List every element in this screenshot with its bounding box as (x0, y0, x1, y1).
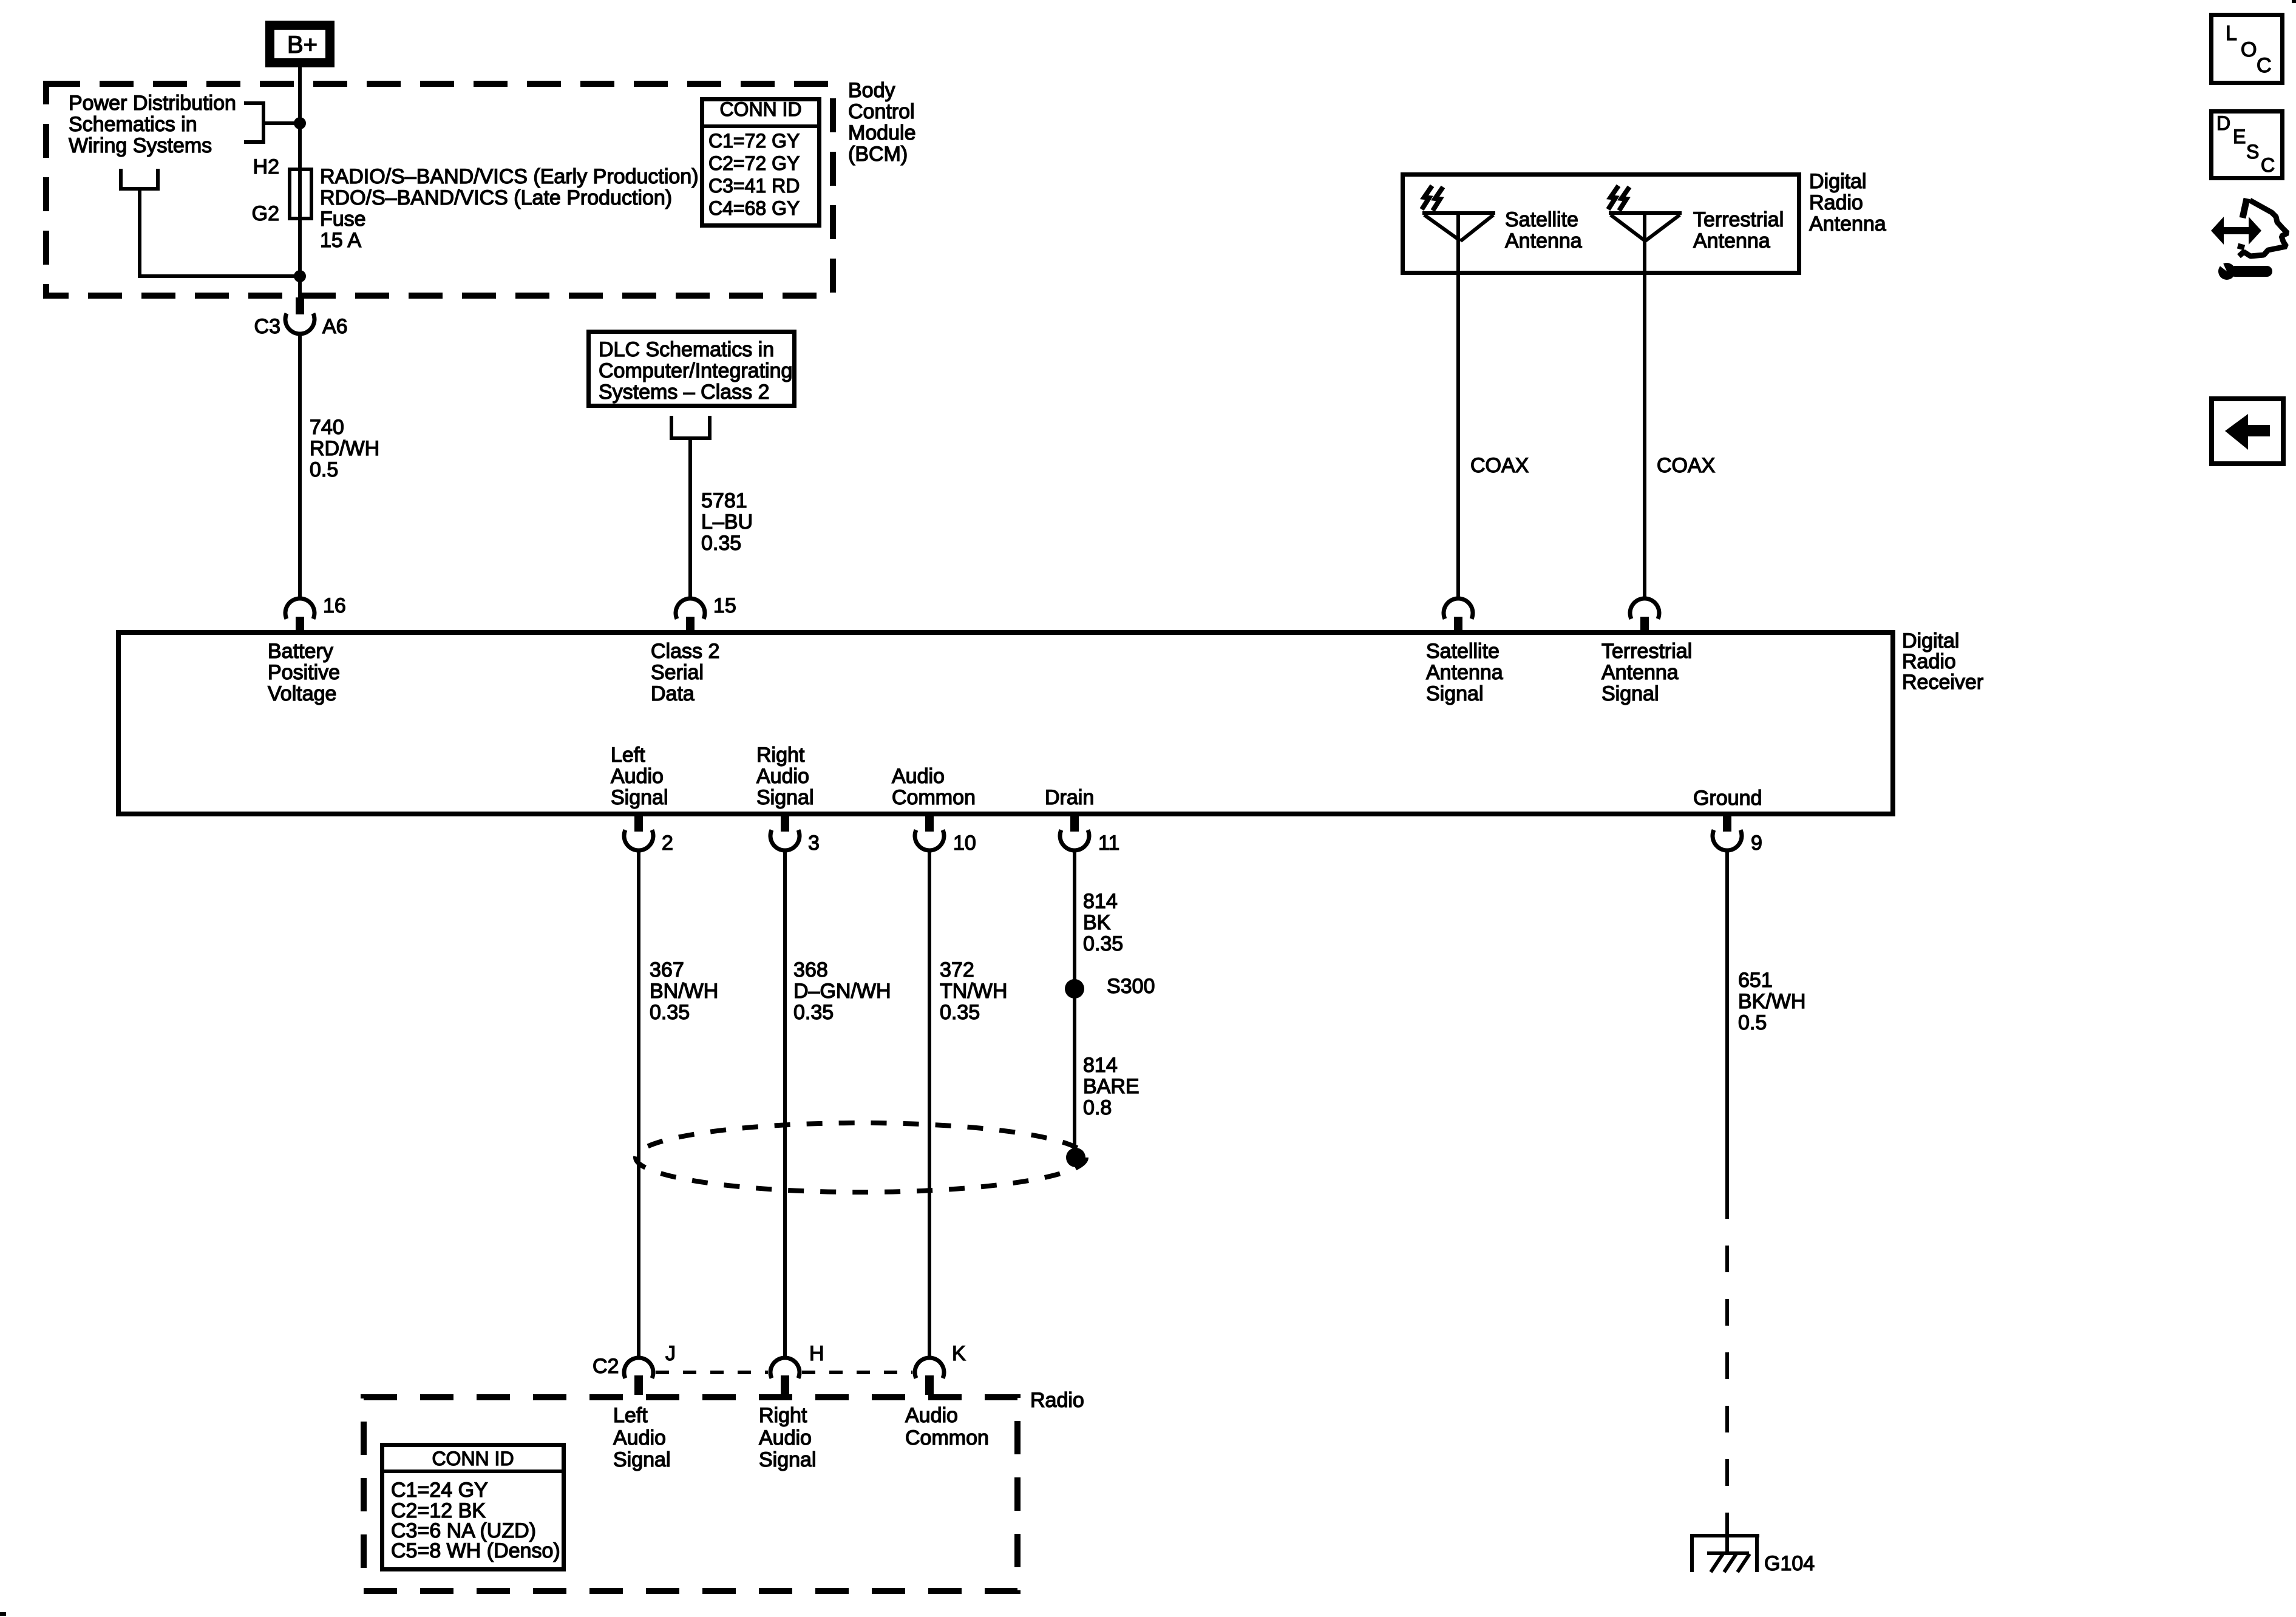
svg-text:COAX: COAX (1470, 454, 1529, 477)
svg-text:Body: Body (848, 79, 895, 102)
svg-text:CONN ID: CONN ID (432, 1448, 514, 1470)
satellite antenna symbol (1422, 186, 1495, 241)
LOC icon box (2212, 15, 2283, 83)
page corner mark top-right (2292, 0, 2296, 3)
svg-text:S: S (2246, 141, 2259, 163)
back arrow icon box (2212, 399, 2283, 464)
svg-text:Antenna: Antenna (1426, 661, 1503, 684)
label wire 367 BN/WH 0.35 (650, 958, 718, 1024)
svg-text:Terrestrial: Terrestrial (1693, 208, 1784, 231)
DLC Schematics note box (589, 332, 795, 406)
svg-text:0.5: 0.5 (310, 458, 338, 481)
wire 814 BK 0.35 drain (1073, 850, 1076, 1158)
svg-text:D–GN/WH: D–GN/WH (793, 980, 891, 1003)
svg-text:BARE: BARE (1083, 1075, 1140, 1098)
svg-text:Data: Data (651, 682, 695, 705)
svg-text:C2: C2 (593, 1355, 619, 1378)
Radio dashed box (364, 1397, 1017, 1591)
svg-text:Radio: Radio (1030, 1389, 1084, 1412)
svg-text:Schematics in: Schematics in (69, 113, 197, 136)
fuse RADIO/S-BAND/VICS 15A (252, 155, 699, 252)
ground G104 (1690, 1530, 1815, 1575)
label wire 814 BK 0.35 (1083, 890, 1123, 955)
connector C2 pin K (915, 1342, 966, 1395)
pin 11 receiver (1060, 816, 1119, 855)
svg-text:Audio: Audio (905, 1404, 958, 1427)
svg-text:Signal: Signal (756, 786, 814, 809)
svg-text:J: J (665, 1342, 676, 1365)
label Left Audio Signal (radio) (613, 1404, 671, 1471)
svg-text:Audio: Audio (756, 765, 809, 788)
label wire 372 TN/WH 0.35 (940, 958, 1007, 1024)
svg-text:Signal: Signal (1426, 682, 1484, 705)
svg-text:0.35: 0.35 (1083, 932, 1123, 955)
svg-text:BK: BK (1083, 911, 1111, 934)
svg-text:Right: Right (756, 744, 805, 767)
satellite antenna pin (1444, 598, 1473, 631)
svg-text:Class 2: Class 2 (651, 640, 719, 663)
svg-text:Signal: Signal (613, 1448, 671, 1471)
svg-text:372: 372 (940, 958, 974, 981)
svg-text:Left: Left (611, 744, 645, 767)
svg-text:CONN ID: CONN ID (719, 98, 801, 120)
page corner mark bottom-left (0, 1612, 6, 1616)
DESC icon box (2212, 112, 2283, 178)
connector dashed link H-K (802, 1371, 912, 1374)
label Class 2 Serial Data (651, 640, 719, 705)
svg-text:COAX: COAX (1657, 454, 1715, 477)
connector C2 pin J (593, 1342, 676, 1395)
svg-text:L–BU: L–BU (701, 510, 753, 534)
svg-text:Receiver: Receiver (1902, 671, 1983, 694)
svg-text:RDO/S–BAND/VICS (Late Producti: RDO/S–BAND/VICS (Late Production) (320, 186, 672, 209)
label Body Control Module (BCM) (848, 79, 916, 166)
svg-text:Power Distribution: Power Distribution (69, 92, 236, 115)
label Satellite Antenna (1505, 208, 1582, 253)
svg-text:Common: Common (905, 1426, 989, 1449)
svg-text:740: 740 (310, 416, 344, 439)
svg-text:Right: Right (759, 1404, 807, 1427)
pin 10 receiver (915, 816, 976, 855)
svg-text:Satellite: Satellite (1505, 208, 1578, 231)
svg-text:A6: A6 (322, 315, 348, 338)
svg-text:Audio: Audio (613, 1426, 666, 1449)
bracket from note to wire (244, 103, 300, 142)
svg-text:5781: 5781 (701, 489, 747, 512)
svg-text:Antenna: Antenna (1601, 661, 1679, 684)
svg-text:Left: Left (613, 1404, 648, 1427)
svg-text:814: 814 (1083, 890, 1118, 913)
svg-text:Module: Module (848, 121, 916, 144)
svg-text:Signal: Signal (759, 1448, 817, 1471)
svg-text:Digital: Digital (1902, 629, 1959, 653)
svg-text:C: C (2257, 54, 2272, 77)
wire 740 RD/WH 0.5 (298, 335, 302, 598)
connector dashed link J-H (656, 1371, 768, 1374)
svg-text:C1=24 GY: C1=24 GY (391, 1479, 488, 1502)
svg-text:H: H (809, 1342, 824, 1365)
svg-text:16: 16 (323, 594, 346, 617)
svg-text:RD/WH: RD/WH (310, 437, 379, 460)
svg-text:D: D (2216, 112, 2230, 134)
svg-text:H2: H2 (253, 155, 279, 178)
svg-text:BK/WH: BK/WH (1738, 990, 1805, 1013)
svg-text:Drain: Drain (1045, 786, 1094, 809)
coax wire satellite (1456, 213, 1460, 598)
svg-text:Ground: Ground (1693, 787, 1762, 810)
svg-text:Positive: Positive (268, 661, 340, 684)
svg-text:Terrestrial: Terrestrial (1601, 640, 1692, 663)
svg-text:K: K (952, 1342, 966, 1365)
svg-text:Antenna: Antenna (1693, 229, 1770, 253)
svg-text:11: 11 (1098, 832, 1119, 855)
label wire 5781 L-BU 0.35 (701, 489, 753, 555)
svg-text:DLC Schematics in: DLC Schematics in (599, 338, 774, 361)
label Terrestrial Antenna (1693, 208, 1784, 253)
svg-text:Voltage: Voltage (268, 682, 336, 705)
svg-text:Computer/Integrating: Computer/Integrating (599, 359, 792, 382)
svg-text:Audio: Audio (892, 765, 945, 788)
svg-text:C: C (2261, 154, 2275, 176)
svg-text:Satellite: Satellite (1426, 640, 1500, 663)
svg-text:0.35: 0.35 (940, 1001, 980, 1024)
svg-text:Battery: Battery (268, 640, 333, 663)
wire 814 BARE 0.8 (1083, 1054, 1140, 1119)
svg-text:368: 368 (793, 958, 828, 981)
svg-text:0.35: 0.35 (793, 1001, 834, 1024)
svg-text:814: 814 (1083, 1054, 1118, 1077)
shield ellipse (drain) (636, 1123, 1086, 1192)
svg-text:2: 2 (662, 832, 673, 855)
svg-text:G104: G104 (1764, 1552, 1815, 1575)
wire B+ down through fuse to BCM box bottom (298, 67, 302, 299)
splice S300 (1065, 975, 1155, 998)
svg-text:E: E (2233, 126, 2246, 147)
svg-text:Fuse: Fuse (320, 208, 366, 231)
svg-text:Audio: Audio (611, 765, 664, 788)
label Digital Radio Receiver (1902, 629, 1983, 694)
svg-text:Antenna: Antenna (1809, 212, 1886, 236)
svg-text:O: O (2241, 38, 2257, 61)
label wire 368 D-GN/WH 0.35 (793, 958, 891, 1024)
wire 5781 L-BU 0.35 (688, 438, 692, 598)
svg-text:G2: G2 (252, 202, 279, 225)
svg-text:15: 15 (713, 594, 736, 617)
pin 16 receiver (285, 594, 346, 631)
label Digital Radio Antenna (1809, 170, 1886, 236)
bracket below note, wire to lower junction (121, 169, 300, 276)
svg-text:Wiring Systems: Wiring Systems (69, 134, 212, 157)
svg-text:Antenna: Antenna (1505, 229, 1582, 253)
svg-text:Systems – Class 2: Systems – Class 2 (599, 381, 770, 404)
svg-text:C3: C3 (254, 315, 280, 338)
pin 15 receiver (676, 594, 736, 631)
svg-text:651: 651 (1738, 969, 1773, 992)
connector C3 pin A6 (254, 297, 348, 338)
svg-text:0.8: 0.8 (1083, 1096, 1112, 1119)
Body Control Module dashed box (46, 84, 833, 296)
label Satellite Antenna Signal (1426, 640, 1503, 705)
svg-text:Audio: Audio (759, 1426, 812, 1449)
label Audio Common (radio) (905, 1404, 989, 1449)
label wire 740 RD/WH 0.5 (310, 416, 379, 481)
terrestrial antenna pin (1630, 598, 1659, 631)
label wire 651 BK/WH 0.5 (1738, 969, 1805, 1034)
svg-text:Digital: Digital (1809, 170, 1866, 193)
dashed ground wire (1725, 1192, 1729, 1551)
wire 367 BN/WH 0.35 (637, 850, 640, 1360)
svg-text:10: 10 (953, 832, 976, 855)
svg-text:L: L (2226, 22, 2237, 45)
wire 372 TN/WH 0.35 (928, 850, 931, 1360)
label Battery Positive Voltage (268, 640, 340, 705)
svg-text:Serial: Serial (651, 661, 704, 684)
svg-text:TN/WH: TN/WH (940, 980, 1007, 1003)
pin 2 receiver (624, 816, 673, 855)
svg-text:Radio: Radio (1902, 650, 1956, 673)
svg-text:Common: Common (892, 786, 976, 809)
svg-text:0.35: 0.35 (701, 532, 741, 555)
svg-text:B+: B+ (287, 32, 318, 58)
label Audio Common (receiver) (892, 765, 976, 809)
label Left Audio Signal (receiver) (611, 744, 668, 809)
svg-text:0.5: 0.5 (1738, 1011, 1767, 1034)
svg-text:C5=8 WH (Denso): C5=8 WH (Denso) (391, 1539, 560, 1562)
node drain to shield (1066, 1148, 1085, 1167)
svg-text:S300: S300 (1107, 975, 1155, 998)
svg-text:367: 367 (650, 958, 684, 981)
Digital Radio Receiver box (118, 632, 1893, 814)
connector C2 pin H (770, 1342, 824, 1395)
B+ power symbol (270, 25, 330, 63)
junction node lower (294, 270, 306, 282)
svg-text:(BCM): (BCM) (848, 143, 908, 166)
CONN ID table (radio) (380, 1445, 566, 1570)
pin 9 receiver (1713, 816, 1762, 855)
svg-text:C4=68 GY: C4=68 GY (708, 197, 800, 219)
svg-text:RADIO/S–BAND/VICS (Early Produ: RADIO/S–BAND/VICS (Early Production) (320, 165, 699, 188)
svg-text:3: 3 (808, 832, 820, 855)
label Right Audio Signal (receiver) (756, 744, 814, 809)
svg-text:9: 9 (1751, 832, 1762, 855)
svg-text:Signal: Signal (1601, 682, 1659, 705)
coax wire terrestrial (1643, 213, 1646, 598)
svg-text:Control: Control (848, 100, 915, 123)
wire 368 D-GN/WH 0.35 (783, 850, 787, 1360)
CONN ID table (BCM) (702, 98, 820, 226)
svg-text:BN/WH: BN/WH (650, 980, 718, 1003)
svg-text:0.35: 0.35 (650, 1001, 690, 1024)
pin 3 receiver (770, 816, 820, 855)
bracket below DLC box (671, 416, 710, 438)
Digital Radio Antenna box (1403, 175, 1799, 273)
svg-text:15 A: 15 A (320, 229, 361, 252)
wire 651 BK/WH 0.5 (1725, 850, 1729, 1192)
label Terrestrial Antenna Signal (1601, 640, 1692, 705)
svg-text:Signal: Signal (611, 786, 668, 809)
svg-text:C3=41 RD: C3=41 RD (708, 175, 800, 197)
diagnostic arrow-wrench icon (2211, 198, 2288, 280)
junction node on B+ wire (294, 117, 306, 129)
svg-text:C1=72 GY: C1=72 GY (708, 130, 800, 152)
svg-text:Radio: Radio (1809, 191, 1863, 214)
svg-text:C2=72 GY: C2=72 GY (708, 152, 800, 174)
note: Power Distribution Schematics in Wiring Systems (69, 92, 236, 157)
terrestrial antenna symbol (1608, 186, 1682, 241)
label Right Audio Signal (radio) (759, 1404, 817, 1471)
